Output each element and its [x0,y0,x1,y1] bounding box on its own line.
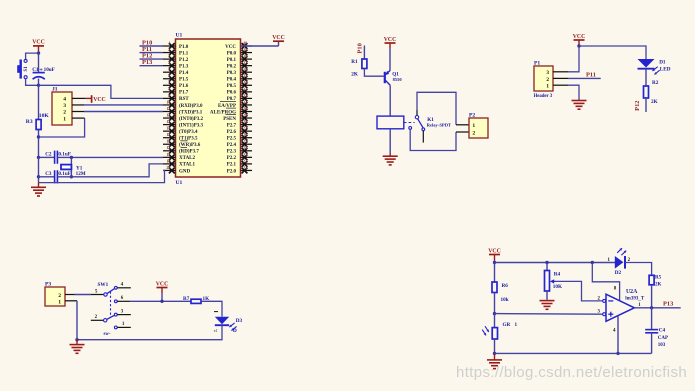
svg-text:lm393_T: lm393_T [625,297,645,302]
svg-text:0.1uF: 0.1uF [58,151,71,157]
potentiometer R4 10K [545,263,563,292]
svg-text:2: 2 [168,47,170,52]
VCC symbol top-right [573,34,586,46]
svg-text:P2.4: P2.4 [227,143,237,148]
wire pin3 from node [495,313,603,316]
svg-text:10: 10 [166,99,170,104]
U1 pin 1 (P1.0) left stub [163,40,176,49]
svg-text:7: 7 [168,80,170,85]
relay K1 contact [409,116,451,143]
pushbutton S1 [17,59,29,78]
svg-text:103: 103 [658,343,666,348]
svg-text:VCC: VCC [384,37,397,43]
svg-text:R2: R2 [652,80,659,86]
VCC symbol above Q1 [385,42,396,44]
U1 right pin names [210,45,237,174]
U1 pin 40 (VCC) right stub [241,40,253,49]
net label P12 (vertical) under R2 [634,98,646,112]
U1 pin 12 ((INT0)P3.2) left stub [163,112,176,121]
svg-text:6: 6 [168,73,170,78]
svg-text:e4: e4 [214,329,218,333]
svg-text:VCC: VCC [156,281,169,287]
svg-text:GR: GR [503,322,511,328]
node crystal top [70,156,73,159]
svg-text:39: 39 [243,47,247,52]
VCC symbol mid bottom-left [157,287,168,289]
svg-text:3: 3 [168,54,170,59]
U1 pin 23 (P2.2) right stub [241,152,253,161]
svg-text:P2.6: P2.6 [227,130,237,135]
svg-text:https://blog.csdn.net/eletroni: https://blog.csdn.net/eletronicfish [456,364,687,381]
svg-text:R6: R6 [502,283,509,289]
node ground-rail [493,352,496,355]
wire P3 pin1 down [65,301,77,340]
svg-text:P0.3: P0.3 [227,71,237,76]
svg-text:2: 2 [546,77,549,83]
svg-text:10uF: 10uF [44,67,55,73]
svg-text:GND: GND [179,169,191,174]
svg-text:P1.4: P1.4 [179,71,189,76]
svg-text:33: 33 [243,86,247,91]
U1 pin 4 (P1.3) left stub [163,60,176,69]
ground symbol under relay [389,154,391,157]
svg-text:23: 23 [243,152,247,157]
svg-text:27: 27 [243,126,247,131]
svg-text:CAP: CAP [658,336,668,341]
svg-text:R3: R3 [26,119,33,125]
node pin4 bottom [616,352,619,355]
svg-text:P1.6: P1.6 [179,84,189,89]
svg-text:P1.3: P1.3 [179,64,189,69]
svg-text:1: 1 [515,322,518,328]
svg-text:(INT0)P3.2: (INT0)P3.2 [179,117,204,122]
ground symbol bottom-left circuit [76,340,78,345]
svg-text:P2.0: P2.0 [227,169,237,174]
U1 pin 30 (ALE/PROG) right stub [241,106,253,115]
wire R6 to node [494,293,496,314]
relay K1 actuation dashed link [404,122,415,124]
svg-text:17: 17 [166,145,170,150]
svg-text:1: 1 [63,116,66,122]
svg-text:31: 31 [243,99,247,104]
wire C3 to XTAL1 jog [58,164,163,177]
node vcc-rail [493,261,496,264]
svg-text:sw-: sw- [104,332,111,337]
node VCC-SW [160,300,163,303]
U1 pin 39 (P0.0) right stub [241,47,253,56]
svg-text:P0.1: P0.1 [227,58,237,63]
capacitor C3 0.1uF [39,170,71,183]
ground symbol bottom-left [38,183,40,188]
wire SW1 pin6 to R7 [130,300,191,302]
U1 pin 10 ((RXD)P3.0) left stub [163,99,176,108]
MCU U1 (AT89C51) body [176,39,241,177]
wire P3 pin2 to SW1 pin5 [65,294,104,296]
node reset-mid [37,84,40,87]
resistor R3 10K [26,85,50,137]
ground symbol comparator [494,353,496,360]
U1 pin 26 (P2.5) right stub [241,132,253,141]
U1 pin 5 (P1.4) left stub [163,67,176,76]
svg-text:C3: C3 [45,171,52,177]
svg-text:25: 25 [243,139,247,144]
ground symbol under R4 [540,300,555,302]
svg-text:18: 18 [166,152,170,157]
svg-text:D1: D1 [659,60,666,66]
svg-text:2K: 2K [651,99,658,105]
wire GND pin to rail [39,170,165,182]
svg-text:P2.1: P2.1 [227,163,237,168]
svg-text:P1.7: P1.7 [179,91,189,96]
svg-text:R7: R7 [183,296,190,302]
svg-text:35: 35 [243,73,247,78]
wire D2 cathode to R5 [625,263,652,276]
U1 pin 18 (XTAL2) left stub [163,152,176,161]
svg-text:U1: U1 [176,180,183,186]
U1 pin 9 (RST) left stub [163,93,176,102]
wire R1 to Q1 base [364,69,383,77]
svg-text:1: 1 [168,40,170,45]
wire R4 bottom to ground [546,291,548,300]
net label P12 wire to P1.2 [140,53,164,60]
U1 pin 16 ((WR)P3.6) left stub [163,139,176,148]
svg-text:U2A: U2A [626,289,638,295]
node output [650,306,653,309]
net label P10 wire to P1.0 [140,39,164,46]
U1 pin 3 (P1.2) left stub [163,54,176,63]
svg-text:P1.5: P1.5 [179,78,189,83]
svg-text:P2.2: P2.2 [227,156,237,161]
svg-text:P1: P1 [534,60,540,66]
U1 pin 28 (P2.7) right stub [241,119,253,128]
wire rail to ground [38,177,40,183]
svg-text:28: 28 [243,119,247,124]
svg-text:32: 32 [243,93,247,98]
U1 pin 36 (P0.3) right stub [241,67,253,76]
resistor R1 2K [351,59,367,77]
U1 pin 2 (P1.1) left stub [163,47,176,56]
node opamp power branch [591,261,594,264]
wire power branch to opamp pin8 [592,263,619,301]
svg-text:VCC: VCC [93,97,106,103]
wire P1 pin3 to VCC [553,46,579,72]
svg-text:1: 1 [58,300,61,306]
transistor Q1 8550 [385,70,403,85]
wire GR to ground node [494,339,496,353]
wire bottom rail [495,352,652,354]
LED D3 [214,312,243,334]
svg-text:VCC: VCC [272,35,285,41]
svg-text:37: 37 [243,60,247,65]
svg-text:C1: C1 [32,67,39,73]
svg-text:(INT1)P3.3: (INT1)P3.3 [179,123,204,128]
svg-text:10K: 10K [553,284,562,290]
svg-text:P13: P13 [663,301,673,308]
svg-text:P2.3: P2.3 [227,150,237,155]
U1 pin 34 (P0.5) right stub [241,80,253,89]
svg-text:RST: RST [179,97,189,102]
svg-text:P0.2: P0.2 [227,64,237,69]
net label P13 wire to P1.3 [140,59,164,66]
crystal Y1 12M [61,157,86,176]
svg-text:1: 1 [472,123,475,129]
resistor R5 2K [649,275,662,287]
capacitor C2 0.1uF [39,151,71,164]
svg-text:C2: C2 [45,151,52,157]
svg-text:(RXD)P3.0: (RXD)P3.0 [179,104,203,109]
U1 pin 27 (P2.6) right stub [241,126,253,135]
svg-text:P0.4: P0.4 [227,78,237,83]
svg-text:21: 21 [243,165,247,170]
U1 pin 17 ((RD)P3.7) left stub [163,145,176,154]
svg-text:XTAL1: XTAL1 [179,163,196,168]
svg-text:P2.7: P2.7 [227,123,237,128]
resistor R6 10k [492,263,509,304]
resistor R2 2K [644,80,659,105]
svg-text:20: 20 [166,165,170,170]
U1 pin 19 (XTAL1) left stub [163,158,176,167]
svg-text:P12: P12 [634,101,641,111]
svg-text:P2: P2 [469,112,475,118]
connector J1 [52,87,72,126]
U1 pin 25 (P2.4) right stub [241,139,253,148]
node plus-input [493,312,496,315]
svg-text:10K: 10K [39,113,50,119]
svg-text:U1: U1 [176,33,183,39]
U1 pin 21 (P2.0) right stub [241,165,253,174]
wire J1 pin2 to P3.1 [72,111,163,113]
capacitor C1 10uF [32,53,55,85]
svg-text:Header 3: Header 3 [534,94,553,99]
svg-text:3: 3 [63,103,66,109]
svg-text:P13: P13 [142,59,152,66]
J1 pin1 stub [72,117,85,119]
svg-text:2K: 2K [655,282,662,287]
wire P1 pin2 net P11 [553,72,601,79]
svg-text:R4: R4 [554,271,561,277]
svg-text:P10: P10 [357,43,364,53]
svg-text:SW1: SW1 [98,282,109,288]
wire rail down to C2 row [38,137,40,157]
node P1 vcc [577,44,580,47]
U1 pin 35 (P0.4) right stub [241,73,253,82]
U1 pin 20 (GND) left stub [163,165,176,174]
svg-text:15: 15 [166,132,170,137]
U1 pin 7 (P1.6) left stub [163,80,176,89]
VCC symbol at J1 pin4 (horizontal) [86,95,106,103]
svg-text:1: 1 [546,84,549,90]
svg-text:12M: 12M [76,171,86,177]
svg-text:XTAL2: XTAL2 [179,156,196,161]
svg-text:8550: 8550 [393,77,403,82]
svg-text:3: 3 [546,70,549,76]
wire opamp output net P13 [634,301,680,308]
svg-text:16: 16 [166,139,170,144]
svg-text:13: 13 [166,119,170,124]
U1 pin 38 (P0.1) right stub [241,54,253,63]
svg-text:2: 2 [63,110,66,116]
svg-text:S1: S1 [24,66,29,72]
wire relay NC contact to P2 pin2 [410,129,456,150]
svg-text:36: 36 [243,67,247,72]
wire Q1 collector to relay coil [389,85,391,116]
svg-text:VCC: VCC [573,34,586,40]
svg-text:12: 12 [166,112,170,117]
svg-text:D3: D3 [236,318,243,324]
node bottom-left rail [75,338,78,341]
svg-text:2: 2 [472,131,475,137]
svg-text:R1: R1 [351,59,358,65]
connector P3 [45,281,65,306]
svg-text:Relay-SPDT: Relay-SPDT [427,122,452,127]
capacitor C4 103 [645,327,668,348]
U1 pin 29 (PSEN) right stub [241,112,253,121]
wire relay common to P2 pin1 [417,92,456,125]
wire P1 pin1 to ground [553,85,579,100]
wire vcc to LED D1 [579,46,646,59]
wire coil to ground [389,129,391,154]
U1 pin 24 (P2.3) right stub [241,145,253,154]
U1 pin 13 ((INT1)P3.3) left stub [163,119,176,128]
VCC symbol at U1 pin 40 [241,35,285,46]
wire opamp pin4 to ground rail [617,316,619,354]
svg-text:19: 19 [166,158,170,163]
net label P11 wire to P1.1 [140,46,164,53]
wire S1 to node [26,79,39,86]
wire C2 to XTAL2 [58,156,163,158]
J1 pin 4 stub [72,97,86,99]
P2 pin stubs [456,125,469,132]
wire D1 to R2 [645,69,647,86]
U1 pin 37 (P0.2) right stub [241,60,253,69]
svg-text:P0.6: P0.6 [227,91,237,96]
U1 pin 31 (EA/VPP) right stub [241,99,253,108]
node C3 left [37,175,40,178]
ground symbol under P1 [572,100,587,102]
svg-text:P2.5: P2.5 [227,137,237,142]
connector P1 Header3 [534,60,554,99]
resistor R7 1K [183,296,209,304]
relay K1 coil [377,116,404,129]
connector P2 [469,112,488,138]
net label P10 (vertical) at R1 [357,43,365,59]
U1 pin 11 ((TXD)P3.1) left stub [163,106,176,115]
svg-text:P1.0: P1.0 [179,45,189,50]
wire reset node to RST pin [39,85,164,98]
svg-text:C4: C4 [659,327,666,333]
svg-text:(TXD)P3.1: (TXD)P3.1 [179,110,203,115]
svg-text:D: D [233,328,237,334]
node reset-top [37,51,40,54]
svg-text:11: 11 [167,106,171,111]
svg-text:VCC: VCC [488,248,501,254]
U1 pin 15 ((T1)P3.5) left stub [163,132,176,141]
VCC symbol top-left [33,45,44,47]
wire vcc to switch S1 [26,53,39,59]
svg-text:LED: LED [660,66,671,72]
node C2 left [37,156,40,159]
wire top rail to D2 [495,262,616,264]
VCC symbol bottom-right [489,254,500,256]
U1 pin 6 (P1.5) left stub [163,73,176,82]
U1 pin 33 (P0.6) right stub [241,86,253,95]
svg-text:10k: 10k [501,297,509,303]
photoresistor GR 1 [482,314,517,339]
wire J1 pin3 to P3.0 [72,104,163,106]
svg-text:P1.1: P1.1 [179,51,189,56]
svg-text:(T0)P3.4: (T0)P3.4 [179,130,198,135]
wire D3 to bottom rail [77,325,222,340]
node R4 top [545,261,548,264]
svg-text:P11: P11 [586,72,596,79]
svg-text:5: 5 [168,67,170,72]
opamp U2A lm393 [598,287,645,334]
svg-text:VCC: VCC [32,40,45,46]
svg-text:8: 8 [168,86,170,91]
svg-text:40: 40 [243,40,247,45]
svg-text:38: 38 [243,54,247,59]
svg-text:29: 29 [243,112,247,117]
svg-text:4: 4 [63,97,66,103]
svg-text:P3: P3 [45,281,51,287]
U1 pin 22 (P2.1) right stub [241,158,253,167]
svg-text:P0.5: P0.5 [227,84,237,89]
wire C4 to bottom rail [651,333,653,354]
svg-text:PSEN: PSEN [223,117,236,122]
svg-text:22: 22 [243,158,247,163]
svg-text:(RD)P3.7: (RD)P3.7 [179,150,199,155]
svg-text:P1.2: P1.2 [179,58,189,63]
node R3 bottom [37,135,40,138]
svg-text:26: 26 [243,132,247,137]
svg-text:R5: R5 [655,275,662,280]
svg-text:2K: 2K [351,71,358,77]
svg-text:D2: D2 [615,270,622,276]
node crystal bottom [70,175,73,178]
switch SW1 (DPDT) [91,282,131,337]
LED D1 [638,59,671,75]
wire R4 wiper to opamp pin2 [555,281,603,301]
U1 pin 8 (P1.7) left stub [163,86,176,95]
wire R5 to output node [651,285,653,308]
svg-text:30: 30 [243,106,247,111]
wire R7 to LED D3 [201,301,222,316]
LED D2 [608,248,631,276]
U1 pin 32 (P0.7) right stub [241,93,253,102]
wire rail down to C3 row [38,157,40,176]
svg-text:9: 9 [168,93,170,98]
wire R3 to J1 pin1 [39,118,85,137]
svg-text:J1: J1 [52,87,58,93]
wire output node to C4 [651,308,653,330]
svg-text:VCC: VCC [225,45,236,50]
svg-text:P0.0: P0.0 [227,51,237,56]
svg-text:2: 2 [58,293,61,299]
U1 left pin names [179,45,204,174]
U1 pin 14 ((T0)P3.4) left stub [163,126,176,135]
